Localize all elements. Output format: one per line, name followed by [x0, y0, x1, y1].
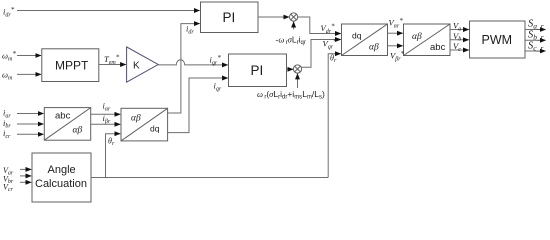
svg-text:-ωrσLriqr: -ωrσLriqr [276, 35, 306, 47]
wire icr input [17, 133, 44, 135]
op PI1 box [201, 2, 259, 33]
wire PI2 output to summing junction 2 [287, 68, 294, 70]
block alphabeta to dq [121, 108, 168, 141]
block MPPT box [42, 49, 99, 82]
wire Vc [450, 49, 469, 51]
wire omega_m input [17, 73, 41, 75]
svg-text:Vαr*: Vαr* [389, 17, 404, 30]
svg-text:αβ: αβ [412, 32, 422, 42]
block alphabeta to abc [404, 24, 451, 56]
block Angle Calcuation box [32, 153, 91, 202]
wire idr* reference input [17, 10, 200, 12]
node summing junction 2 [293, 65, 301, 73]
block dq to alphabeta [342, 24, 388, 56]
wire Vbetar* [388, 45, 403, 47]
svg-text:abc: abc [430, 42, 446, 53]
wire compensation term into junction 1 [293, 22, 295, 30]
svg-text:iqr: iqr [214, 81, 222, 93]
svg-text:ωm*: ωm* [2, 50, 16, 63]
svg-text:dq: dq [352, 31, 362, 41]
wire junction 2 output Vqr* to dq block [301, 40, 340, 68]
svg-text:Sc_r: Sc_r [528, 41, 543, 53]
wire idr feedback from ab/dq block up to PI1 [168, 24, 200, 113]
svg-text:ωm: ωm [2, 70, 13, 82]
wire Va [450, 29, 469, 31]
svg-text:dq: dq [150, 124, 160, 134]
wire Tem* MPPT to gain K [99, 64, 126, 66]
svg-text:K: K [133, 61, 140, 72]
svg-text:idr: idr [186, 24, 194, 36]
wire iqr feedback to PI2 [168, 78, 228, 133]
svg-text:idr*: idr* [3, 6, 15, 18]
block PWM box [470, 21, 526, 58]
op PI2 box [229, 54, 287, 87]
svg-text:icr: icr [3, 128, 11, 140]
svg-text:iαr: iαr [103, 101, 112, 113]
gain K triangle [127, 47, 159, 82]
wire compensation term into junction 2 [297, 74, 299, 88]
svg-text:αβ: αβ [131, 114, 141, 124]
wire Var input [20, 168, 31, 170]
svg-text:Calcuation: Calcuation [35, 178, 87, 190]
wire ibr input [17, 123, 44, 125]
svg-text:MPPT: MPPT [55, 59, 89, 73]
wire Sa_r output [525, 29, 546, 31]
wire theta_r main line from Angle Calcuation [91, 177, 328, 179]
svg-text:PWM: PWM [482, 33, 513, 47]
wire Vcr input [20, 181, 31, 183]
wire ialphar [91, 113, 121, 115]
node summing junction 1 [290, 13, 298, 21]
wire theta_r into ab/dq block [106, 134, 121, 178]
wire omega_m* input [17, 55, 41, 57]
svg-text:ωr(σLridr+imsLm/Ls): ωr(σLridr+imsLm/Ls) [257, 89, 325, 101]
block abc to alphabeta [44, 108, 90, 141]
svg-text:Tem*: Tem* [104, 53, 120, 66]
svg-text:θr: θr [108, 137, 115, 148]
svg-text:PI: PI [223, 10, 236, 25]
svg-text:PI: PI [251, 63, 264, 78]
wire iqr* from K to PI2 with hop [158, 60, 228, 65]
svg-text:Vc: Vc [453, 41, 461, 53]
wire Valphar* [388, 32, 403, 34]
svg-text:Vdr*: Vdr* [321, 22, 336, 35]
wire Vb [450, 39, 469, 41]
svg-text:Angle: Angle [48, 164, 76, 176]
svg-text:θr: θr [330, 54, 337, 65]
svg-text:αβ: αβ [73, 126, 83, 136]
wire Vbr input [20, 175, 31, 177]
svg-text:αβ: αβ [369, 43, 379, 53]
svg-text:Vβr*: Vβr* [390, 50, 405, 63]
svg-text:abc: abc [55, 111, 71, 122]
wire ibetar [91, 123, 121, 125]
wire PI1 output to summing junction 1 [258, 16, 289, 18]
wire Sc_r output [525, 50, 546, 52]
wire junction 1 output Vdr* to dq block [298, 17, 341, 34]
wire theta_r into dq block [328, 54, 341, 178]
wire iar input [17, 113, 44, 115]
wire Sb_r output [525, 39, 546, 41]
